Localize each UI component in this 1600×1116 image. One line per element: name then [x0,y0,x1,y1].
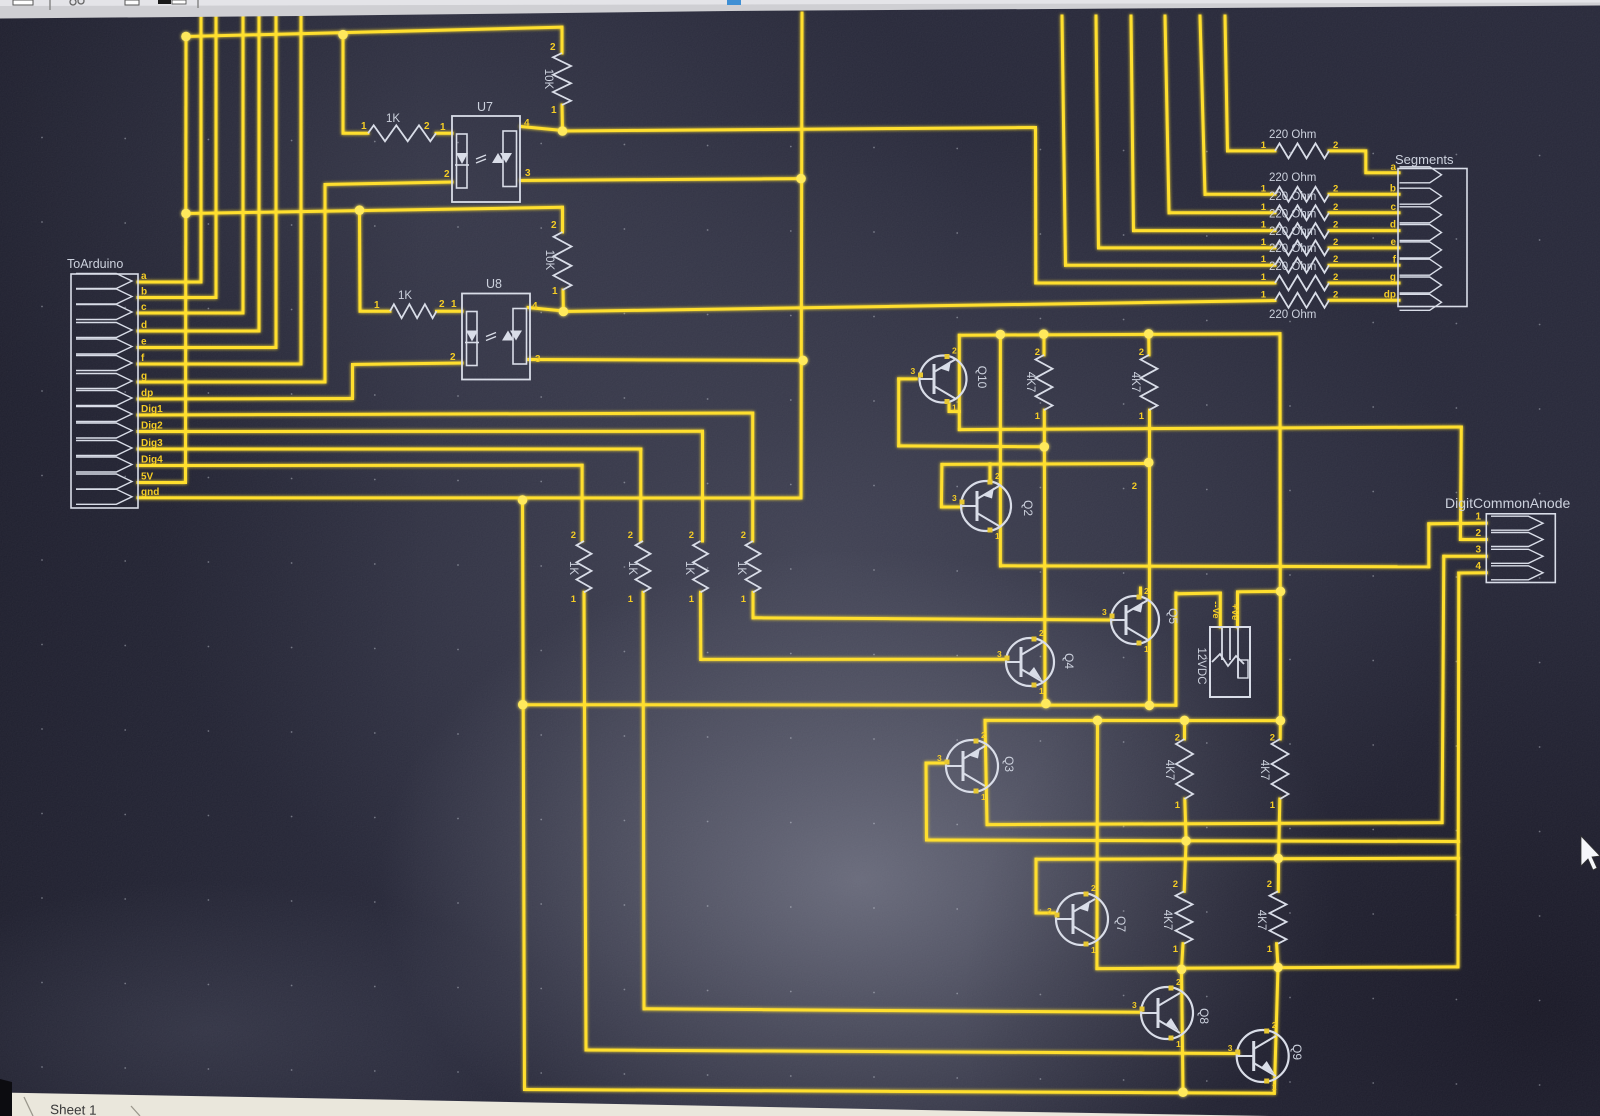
svg-text:4K7: 4K7 [1163,760,1175,780]
svg-text:2: 2 [1035,347,1040,358]
svg-text:2: 2 [1333,202,1338,213]
svg-text:1: 1 [952,403,957,413]
svg-text:Dig1: Dig1 [141,404,163,415]
svg-text:2: 2 [952,346,957,356]
svg-text:1: 1 [1261,220,1267,231]
svg-text:1: 1 [689,594,695,605]
svg-text:Q2: Q2 [1021,500,1035,516]
svg-text:220 Ohm: 220 Ohm [1269,129,1316,141]
svg-text:3: 3 [997,649,1002,659]
svg-text:Dig4: Dig4 [141,455,163,466]
svg-text:Q8: Q8 [1197,1008,1211,1024]
svg-text:4K7: 4K7 [1024,372,1036,392]
svg-text:1: 1 [1267,944,1273,955]
svg-text:2: 2 [450,352,456,363]
svg-text:2: 2 [1333,183,1338,194]
svg-text:3: 3 [952,493,957,503]
svg-text:1K: 1K [398,290,412,302]
svg-text:Q5: Q5 [1166,608,1180,624]
svg-text:1: 1 [1144,644,1149,654]
svg-text:dp: dp [141,388,153,399]
svg-text:e: e [1390,237,1396,248]
svg-text:1: 1 [1039,686,1044,696]
svg-text:Q3: Q3 [1002,756,1016,772]
svg-text:2: 2 [1144,586,1149,596]
svg-text:1: 1 [1261,202,1267,213]
svg-text:4K7: 4K7 [1161,910,1173,930]
svg-text:2: 2 [1333,289,1338,300]
svg-text:2: 2 [981,730,986,740]
svg-text:2: 2 [550,42,556,53]
svg-text:220 Ohm: 220 Ohm [1269,172,1316,184]
svg-text:3: 3 [1047,906,1052,916]
svg-text:1K: 1K [626,561,638,575]
svg-text:3: 3 [1228,1043,1233,1053]
svg-text:Dig2: Dig2 [141,421,163,432]
svg-text:1K: 1K [386,113,400,125]
svg-text:2: 2 [628,530,633,541]
svg-text:2: 2 [1173,879,1178,890]
svg-text:c: c [141,302,147,313]
svg-text:gnd: gnd [141,487,159,498]
svg-text:2: 2 [1475,528,1481,539]
svg-text:dp: dp [1384,290,1396,301]
svg-text:b: b [141,287,147,298]
svg-text:Sheet 1: Sheet 1 [50,1102,97,1116]
svg-text:4K7: 4K7 [1255,910,1267,930]
svg-text:12VDC: 12VDC [1195,647,1207,684]
svg-text:2: 2 [1270,733,1275,744]
svg-text:4K7: 4K7 [1129,372,1141,392]
svg-text:1K: 1K [567,561,579,575]
svg-text:3: 3 [1475,545,1481,556]
svg-text:4: 4 [524,118,530,129]
svg-text:4K7: 4K7 [1258,760,1270,780]
svg-text:d: d [141,320,147,331]
svg-text:a: a [141,271,147,282]
svg-text:2: 2 [1333,272,1338,283]
svg-text:+Ve: +Ve [1229,604,1240,621]
svg-text:1: 1 [1261,272,1267,283]
svg-text:U7: U7 [477,100,493,114]
svg-text:1: 1 [1173,944,1179,955]
svg-text:2: 2 [444,169,450,180]
svg-text:1: 1 [374,300,380,311]
svg-text:Segments: Segments [1395,152,1454,167]
svg-text:1: 1 [552,286,558,297]
svg-text:2: 2 [1267,879,1272,890]
svg-text:220 Ohm: 220 Ohm [1269,261,1316,273]
svg-text:1: 1 [1272,1082,1277,1092]
svg-text:DigitCommonAnode: DigitCommonAnode [1445,495,1570,511]
svg-text:1: 1 [451,299,457,310]
svg-text:1: 1 [361,121,367,132]
svg-text:2: 2 [1039,628,1044,638]
svg-text:3: 3 [1132,1000,1137,1010]
svg-text:1: 1 [741,594,747,605]
svg-text:2: 2 [741,530,746,541]
svg-text:220 Ohm: 220 Ohm [1269,309,1316,321]
svg-text:Q4: Q4 [1062,653,1076,669]
svg-text:1: 1 [1261,254,1267,265]
svg-text:1K: 1K [683,561,695,575]
svg-text:1: 1 [981,792,986,802]
svg-text:2: 2 [1176,977,1181,987]
svg-text:1: 1 [551,105,557,116]
svg-text:3: 3 [535,354,541,365]
svg-text:1: 1 [1175,800,1181,811]
svg-text:1: 1 [571,594,577,605]
svg-text:1: 1 [1270,800,1276,811]
svg-text:2: 2 [689,530,694,541]
svg-text:2: 2 [1333,254,1338,265]
svg-text:2: 2 [1132,481,1137,492]
svg-text:1: 1 [1091,945,1096,955]
svg-text:g: g [1390,272,1396,283]
svg-text:220 Ohm: 220 Ohm [1269,209,1316,221]
svg-text:U8: U8 [486,277,502,291]
svg-text:3: 3 [911,366,916,376]
svg-text:220 Ohm: 220 Ohm [1269,191,1316,203]
svg-text:1: 1 [1035,411,1041,422]
svg-text:2: 2 [571,530,576,541]
svg-text:1: 1 [1176,1039,1181,1049]
svg-text:10K: 10K [542,69,554,90]
svg-text:1: 1 [1261,289,1267,300]
svg-text:1: 1 [1261,140,1267,151]
svg-text:4: 4 [1475,561,1481,572]
svg-text:1: 1 [995,531,1000,541]
svg-text:Q10: Q10 [975,366,989,389]
svg-text:a: a [1390,162,1396,173]
svg-text:g: g [141,371,147,382]
svg-text:2: 2 [1091,883,1096,893]
svg-text:3: 3 [525,168,531,179]
svg-text:10K: 10K [543,250,555,271]
svg-text:1: 1 [1261,237,1267,248]
svg-text:1: 1 [1475,512,1481,523]
svg-text:5V: 5V [141,472,154,483]
svg-text:2: 2 [995,471,1000,481]
svg-text:c: c [1390,202,1396,213]
svg-text:1: 1 [1139,411,1145,422]
svg-text:2: 2 [439,299,445,310]
svg-text:220 Ohm: 220 Ohm [1269,243,1316,255]
svg-text:2: 2 [1333,237,1338,248]
svg-text:2: 2 [551,220,557,231]
svg-text:Q7: Q7 [1114,916,1128,932]
svg-text:3: 3 [1102,607,1107,617]
svg-text:ToArduino: ToArduino [67,257,123,271]
svg-text:3: 3 [937,753,942,763]
svg-text:4: 4 [532,301,538,312]
svg-text:Dig3: Dig3 [141,438,163,449]
svg-text:1: 1 [440,122,446,133]
svg-text:1: 1 [1261,183,1267,194]
svg-text:--Ve: --Ve [1210,601,1221,618]
svg-text:2: 2 [1333,140,1338,151]
svg-text:2: 2 [424,121,430,132]
svg-text:2: 2 [1175,733,1180,744]
svg-text:1: 1 [628,594,634,605]
svg-text:220 Ohm: 220 Ohm [1269,226,1316,238]
svg-text:2: 2 [1139,347,1144,358]
svg-text:2: 2 [1333,220,1338,231]
svg-text:d: d [1390,220,1396,231]
svg-text:e: e [141,337,147,348]
svg-text:2: 2 [1272,1020,1277,1030]
svg-text:Q9: Q9 [1290,1044,1304,1060]
svg-text:1K: 1K [735,561,747,575]
svg-text:b: b [1390,184,1396,195]
